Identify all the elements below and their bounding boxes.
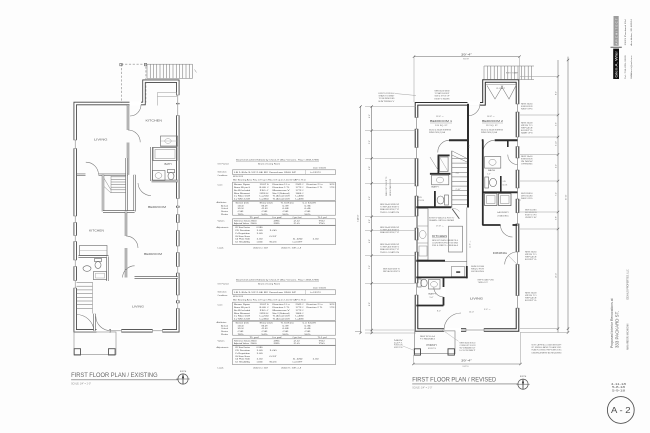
- svg-text:L=360: L=360: [260, 199, 270, 201]
- left plan: stair block walls: [102, 175, 104, 212]
- left plan: basement stairs: [77, 282, 93, 284]
- titleblock: sheet number circle A-2: [607, 397, 634, 424]
- left plan: bath2 walls: [78, 255, 108, 257]
- svg-text:NEW OPG: NEW OPG: [521, 108, 533, 110]
- svg-text:Conditions: Conditions: [218, 174, 229, 177]
- svg-text:Ratio: Ratio: [221, 333, 229, 336]
- svg-text:78%: 78%: [238, 334, 244, 336]
- right plan: main stairs: [451, 151, 453, 208]
- table1: values box: [233, 219, 336, 225]
- svg-text:KITCHEN: KITCHEN: [146, 118, 163, 122]
- svg-text:Max Moment: Max Moment: [234, 192, 251, 195]
- svg-text:5'-0": 5'-0": [430, 297, 434, 299]
- svg-text:2'-10": 2'-10": [456, 189, 461, 191]
- left plan: kitchen counter upper: [161, 136, 178, 146]
- svg-text:OPENING: OPENING: [521, 163, 533, 165]
- right plan: french door arcs at dining: [505, 252, 518, 265]
- svg-text:Attributes: Attributes: [217, 201, 228, 204]
- svg-text:Lu 1/3/17 F: Lu 1/3/17 F: [310, 292, 322, 294]
- svg-text:Actual: Actual: [221, 324, 229, 327]
- svg-text:LOCKSET: LOCKSET: [460, 350, 478, 352]
- svg-text:MOS 2015: MOS 2015: [233, 296, 244, 298]
- svg-text:SAME OPG: SAME OPG: [521, 131, 533, 134]
- right plan: angled door at stair: [452, 209, 459, 219]
- svg-text:13'-6" +-: 13'-6" +-: [436, 116, 444, 118]
- left plan: deck right window: [176, 95, 180, 103]
- right plan: dining table rect: [451, 267, 464, 277]
- left plan: door arc living-kitchen: [128, 130, 140, 142]
- svg-text:LIVING: LIVING: [94, 138, 108, 142]
- svg-text:11'-6" +-: 11'-6" +-: [469, 240, 471, 248]
- svg-text:REF'N OAK FLRS: REF'N OAK FLRS: [478, 279, 495, 282]
- svg-text:Proposed Interior Renovations: Proposed Interior Renovations at: [610, 298, 614, 348]
- left plan: exterior stair hatch top: [147, 63, 193, 65]
- svg-text:LEVEL 2ND FLOOR: LEVEL 2ND FLOOR: [390, 178, 392, 196]
- svg-text:1773 #: 1773 #: [296, 307, 305, 309]
- right plan: bath2 toilet: [485, 177, 489, 188]
- right plan: right dim lines: [557, 60, 559, 333]
- svg-text:Max Moment: Max Moment: [234, 312, 251, 315]
- svg-text:Adjusted Values: Adjusted Values: [234, 222, 249, 225]
- svg-text:Reaction 1 Lu: Reaction 1 Lu: [273, 303, 291, 306]
- svg-text:EXIST FTGS: EXIST FTGS: [394, 347, 403, 349]
- svg-text:105.94: 105.94: [238, 328, 245, 330]
- svg-text:LB 1-3/4x 9-1/2 2.0E RV Vers: LB 1-3/4x 9-1/2 2.0E RV VersaLam 3100 SP: [234, 291, 297, 294]
- svg-text:TL Actual Defl: TL Actual Defl: [273, 318, 291, 321]
- north compass right: [518, 379, 528, 389]
- svg-text:LIVING: LIVING: [132, 304, 145, 308]
- svg-text:333 PACKARD ST.: 333 PACKARD ST.: [615, 311, 620, 348]
- right plan: bottom dimension line: [413, 363, 520, 365]
- table2: data box: [233, 302, 336, 320]
- svg-text:EXIST'G WDWS: EXIST'G WDWS: [435, 98, 451, 100]
- svg-text:Lv Max Defl: Lv Max Defl: [234, 316, 251, 318]
- svg-text:5'-10": 5'-10": [556, 141, 558, 146]
- table1: selection box: [233, 170, 336, 175]
- left plan: deck inner lines: [158, 93, 177, 97]
- svg-text:Cr Repetition: Cr Repetition: [235, 232, 251, 235]
- svg-text:Reaction 2 Lu: Reaction 2 Lu: [307, 183, 324, 186]
- right plan: bath2 bottom wall: [482, 191, 517, 193]
- svg-text:UNDERLAYMENT AS REQUIRED: UNDERLAYMENT AS REQUIRED: [532, 351, 563, 354]
- right plan: top dimension line: [414, 56, 520, 58]
- svg-text:Max V (Reduced): Max V (Reduced): [273, 313, 290, 315]
- svg-text:6'-2": 6'-2": [369, 196, 371, 200]
- svg-text:Reaction 1 TL: Reaction 1 TL: [273, 306, 291, 309]
- svg-text:39'-4": 39'-4": [461, 53, 472, 56]
- svg-text:Beam Wt per ft: Beam Wt per ft: [234, 306, 250, 309]
- svg-text:78%: 78%: [238, 214, 244, 216]
- svg-text:REPLACE EXIST'G: REPLACE EXIST'G: [383, 270, 401, 273]
- svg-text:110 #: 110 #: [260, 190, 271, 192]
- svg-text:Date: 5/10/25: Date: 5/10/25: [313, 286, 327, 289]
- svg-text:CH Shear Stress: CH Shear Stress: [235, 355, 250, 358]
- svg-text:Bm Wt Included: Bm Wt Included: [234, 189, 251, 192]
- svg-text:KITCHEN: KITCHEN: [89, 229, 104, 233]
- svg-text:56%: 56%: [283, 214, 289, 216]
- svg-text:3'-6": 3'-6": [556, 122, 558, 126]
- svg-text:13.67 ft: 13.67 ft: [260, 183, 270, 186]
- left plan: bedroom1 door arc: [138, 183, 151, 196]
- svg-text:Lv psf: Lv psf: [273, 337, 283, 339]
- svg-text:OG: Framed: OG: Framed: [218, 282, 230, 285]
- left plan: right wall windows: [176, 104, 180, 116]
- svg-text:L=483: L=483: [296, 319, 305, 321]
- svg-text:TL-1 psf: TL-1 psf: [318, 337, 327, 339]
- svg-text:L=483: L=483: [296, 199, 305, 201]
- svg-text:BEDROOM: BEDROOM: [148, 205, 167, 209]
- svg-text:SHIM OUT FLOOR TO: SHIM OUT FLOOR TO: [386, 176, 388, 196]
- svg-text:Attributes: Attributes: [217, 321, 228, 324]
- titleblock: firm black box: [613, 49, 619, 79]
- svg-text:110 #: 110 #: [260, 310, 271, 312]
- svg-text:NORTH: NORTH: [180, 371, 187, 373]
- left plan: door arc deck-kitchen: [130, 105, 141, 116]
- right plan: bath2 vanity: [485, 157, 501, 169]
- svg-text:RB=12.06: RB=12.06: [270, 241, 278, 243]
- svg-text:37'-8": 37'-8": [566, 194, 568, 200]
- svg-text:Lv Defl: Lv Defl: [303, 202, 317, 204]
- svg-text:ANN ARBOR, MICHIGAN: ANN ARBOR, MICHIGAN: [627, 323, 630, 350]
- svg-text:Reaction 2 Lu: Reaction 2 Lu: [307, 303, 324, 306]
- svg-text:2345 #: 2345 #: [296, 304, 305, 306]
- svg-text:(STACKED): (STACKED): [498, 214, 509, 217]
- right plan: exterior walls: [417, 81, 518, 330]
- svg-text:C gen 1-mil: C gen 1-mil: [293, 337, 302, 339]
- svg-text:CLOS: CLOS: [502, 185, 508, 187]
- svg-text:6'-2": 6'-2": [469, 144, 471, 148]
- svg-text:CD Duration: CD Duration: [235, 229, 251, 232]
- svg-text:2345 #: 2345 #: [296, 184, 305, 186]
- right plan: stair winders: [452, 151, 467, 159]
- svg-text:Adjusted Values: Adjusted Values: [234, 342, 249, 345]
- svg-text:Loads: Loads: [218, 367, 225, 369]
- left plan: bath1 walls upper right: [150, 147, 152, 181]
- svg-text:STAIR TO BSMT: STAIR TO BSMT: [379, 95, 396, 98]
- svg-text:134.44: 134.44: [238, 205, 245, 207]
- svg-text:Lv Min Defl: Lv Min Defl: [234, 199, 251, 201]
- svg-text:VERIFY SZ: VERIFY SZ: [525, 217, 538, 219]
- svg-text:OG: Framed: OG: Framed: [218, 162, 230, 165]
- svg-text:Beam of Living Room: Beam of Living Room: [258, 163, 280, 165]
- table2: adjustments box: [233, 346, 336, 365]
- svg-text:Uniform Lv: 1617: Uniform Lv: 1617: [253, 366, 269, 369]
- svg-text:NEW KITCHEN CABINETS &: NEW KITCHEN CABINETS &: [432, 239, 459, 242]
- svg-text:Ct Stability: Ct Stability: [235, 240, 251, 243]
- svg-text:Ct Stability: Ct Stability: [235, 360, 251, 363]
- svg-text:1666 #: 1666 #: [296, 193, 305, 195]
- svg-text:3'-6": 3'-6": [456, 173, 460, 175]
- svg-text:Beam Span: Beam Span: [234, 304, 251, 306]
- left plan: door arc mid: [126, 236, 138, 248]
- svg-text:Beam Span: Beam Span: [234, 184, 251, 186]
- svg-text:SMALLER WDW, TYP: SMALLER WDW, TYP: [380, 208, 400, 211]
- left plan: bath1 toilet: [168, 170, 175, 173]
- right plan: closet rod + hangers: [486, 84, 516, 86]
- svg-text:Section (in3): Section (in3): [236, 201, 249, 204]
- svg-text:PLANK FLOORING. PREP SUBFLOOR: PLANK FLOORING. PREP SUBFLOOR &: [532, 349, 563, 352]
- svg-text:Critical: Critical: [221, 207, 229, 210]
- svg-text:4'-8": 4'-8": [369, 166, 371, 170]
- svg-text:Reaction 1 Lu: Reaction 1 Lu: [273, 183, 291, 186]
- svg-text:FIRST FLOOR PLAN / EXISTING: FIRST FLOOR PLAN / EXISTING: [71, 372, 158, 379]
- left plan: stair winders: [104, 178, 112, 191]
- svg-text:Selection: Selection: [218, 290, 228, 293]
- svg-text:L=240: L=240: [260, 196, 270, 198]
- left plan: bath2 sink: [83, 266, 91, 272]
- left plan: interior wall living/kitchen upper: [127, 105, 129, 130]
- svg-text:56%: 56%: [305, 334, 311, 336]
- svg-text:Status: Status: [221, 330, 228, 333]
- svg-text:Reaction 2 TL: Reaction 2 TL: [307, 306, 324, 309]
- right plan: bath2 door arc: [483, 140, 495, 152]
- svg-text:86.09: 86.09: [262, 205, 269, 207]
- left plan: porch: [74, 332, 116, 355]
- svg-text:24236 ft#: 24236 ft#: [260, 312, 270, 315]
- left plan: stair treads: [111, 176, 126, 178]
- svg-text:CLOSET: CLOSET: [496, 88, 506, 90]
- svg-text:Lv Min Defl: Lv Min Defl: [234, 319, 251, 321]
- svg-text:Ann Arbor, MI 48104: Ann Arbor, MI 48104: [630, 18, 633, 46]
- svg-text:1773 #: 1773 #: [330, 187, 337, 189]
- svg-text:3673 #: 3673 #: [330, 184, 337, 186]
- svg-text:1773 #: 1773 #: [296, 187, 305, 189]
- svg-text:Glen A. Wier: Glen A. Wier: [615, 50, 619, 78]
- titleblock: separator line: [611, 46, 622, 48]
- svg-text:Selection: Selection: [218, 170, 228, 173]
- svg-text:ENTIRELY: ENTIRELY: [379, 101, 396, 103]
- svg-text:TO REPLACE EXIST'G: TO REPLACE EXIST'G: [380, 229, 400, 232]
- right plan: left wall windows: [414, 118, 418, 130]
- svg-text:1666 #: 1666 #: [296, 313, 305, 315]
- right plan: bath1 toilet: [445, 195, 449, 205]
- svg-text:0.980: 0.980: [257, 227, 264, 229]
- svg-text:FIRST FLOOR PLAN / REVISED: FIRST FLOOR PLAN / REVISED: [412, 376, 496, 383]
- svg-text:CF Size Factor: CF Size Factor: [235, 346, 250, 349]
- svg-text:BEDROOM 2: BEDROOM 2: [482, 119, 503, 123]
- left plan: interior wall living/kitchen lower: [127, 143, 129, 175]
- svg-text:134.44: 134.44: [238, 325, 245, 327]
- svg-text:Bm Wt Included: Bm Wt Included: [234, 309, 251, 312]
- svg-text:REMAIN - PATCH & REPAIR: REMAIN - PATCH & REPAIR: [429, 219, 455, 222]
- right plan: door leader line: [441, 329, 459, 341]
- svg-text:TO MATCH EXIST: TO MATCH EXIST: [435, 92, 451, 95]
- svg-text:LAUNDRY: LAUNDRY: [497, 211, 510, 214]
- right plan: kitchen top wall: [416, 206, 451, 208]
- svg-text:Lu=13.58 FT: Lu=13.58 FT: [293, 241, 304, 243]
- svg-text:PORCH: PORCH: [427, 344, 437, 347]
- svg-text:CD Duration: CD Duration: [235, 349, 251, 352]
- right plan: shower door diag: [430, 157, 438, 170]
- right plan: bath3 walls: [443, 277, 445, 305]
- svg-text:W/ DEADBOLT: W/ DEADBOLT: [460, 347, 477, 350]
- svg-text:Beam of Living Room: Beam of Living Room: [258, 283, 280, 285]
- svg-text:8.06 #: 8.06 #: [260, 307, 270, 309]
- svg-text:54%: 54%: [262, 334, 268, 336]
- svg-text:Adjustments: Adjustments: [217, 226, 230, 229]
- left plan: bedroom2 bottom wall H2: [135, 276, 178, 278]
- svg-text:13.67 ft: 13.67 ft: [260, 303, 270, 306]
- svg-text:BATH: BATH: [432, 186, 440, 189]
- svg-text:CLOS: CLOS: [419, 200, 425, 202]
- svg-text:Cd Plate Side: Cd Plate Side: [235, 238, 251, 241]
- left plan: top wall door opening to deck: [130, 101, 142, 105]
- left plan: dashed old porch outline: [120, 64, 122, 103]
- left plan: bath2 shower: [94, 272, 107, 280]
- svg-text:5'-0": 5'-0": [487, 174, 491, 176]
- svg-text:Critical: Critical: [221, 327, 229, 330]
- svg-text:36x60 & 36x48 EGRESS: 36x60 & 36x48 EGRESS: [481, 130, 504, 132]
- table1: data box: [233, 182, 336, 200]
- table1: adjustments box: [233, 226, 336, 245]
- svg-text:BATH: BATH: [165, 163, 172, 166]
- svg-text:41.43: 41.43: [262, 328, 269, 330]
- svg-text:8'-0": 8'-0": [556, 91, 558, 95]
- svg-text:TL Actual Defl: TL Actual Defl: [273, 198, 291, 201]
- svg-text:5'-2": 5'-2": [369, 265, 371, 269]
- svg-text:EXIST STAIR: EXIST STAIR: [506, 72, 519, 75]
- svg-text:Lv Max Defl: Lv Max Defl: [234, 196, 251, 198]
- svg-text:54%: 54%: [262, 214, 268, 216]
- svg-text:3673 #: 3673 #: [330, 304, 337, 306]
- svg-text:WINDOWS (2) EA: WINDOWS (2) EA: [429, 131, 446, 134]
- svg-text:ARCHITECT: ARCHITECT: [614, 17, 618, 45]
- svg-text:TO REPLACE EXIST'G: TO REPLACE EXIST'G: [380, 246, 400, 249]
- svg-text:Maximum V: Maximum V: [273, 310, 291, 312]
- svg-text:16'-8" +-: 16'-8" +-: [487, 116, 495, 118]
- svg-text:2'-8": 2'-8": [369, 219, 371, 223]
- right plan: right wall windows: [515, 104, 519, 112]
- left plan: door arc H2: [123, 266, 135, 278]
- svg-text:Reaction 1 TL: Reaction 1 TL: [273, 186, 291, 189]
- svg-text:Date: 5/10/25: Date: 5/10/25: [313, 166, 327, 169]
- left plan: middle wall below stairs: [125, 212, 127, 237]
- right plan: bath1/shower walls: [438, 154, 450, 156]
- svg-text:L=240: L=240: [260, 316, 270, 318]
- svg-text:Reaction 2 TL: Reaction 2 TL: [307, 186, 324, 189]
- svg-text:1923 Packard Rd: 1923 Packard Rd: [624, 18, 627, 45]
- svg-text:105.94: 105.94: [238, 208, 245, 210]
- svg-text:MOS 2015: MOS 2015: [233, 176, 244, 178]
- right plan: wall H1 bedroom bottoms: [449, 139, 468, 141]
- svg-text:WINDOWS (2) EA: WINDOWS (2) EA: [481, 131, 498, 134]
- svg-text:DEPTH: DEPTH: [463, 366, 470, 368]
- right plan: left dim lines: [360, 106, 362, 333]
- svg-text:17'-8" +-: 17'-8" +-: [436, 225, 444, 227]
- svg-text:1773 #: 1773 #: [296, 310, 305, 312]
- svg-text:Uniform Lv: 1617: Uniform Lv: 1617: [253, 246, 269, 249]
- right plan: bath2 left wall / laundry wall: [482, 140, 484, 225]
- right plan: laundry bottom wall: [482, 224, 500, 226]
- svg-text:Reference Values: Reference Values: [234, 339, 250, 342]
- table2: selection box: [233, 290, 336, 295]
- svg-text:RB=12.06: RB=12.06: [270, 361, 278, 363]
- svg-text:Uniform TL: 1587 = L-8: Uniform TL: 1587 = L-8: [281, 366, 302, 369]
- svg-text:LIN: LIN: [419, 197, 423, 199]
- table1: attributes box: [233, 201, 336, 215]
- right plan: bedroom1 door arc at H1: [438, 140, 449, 152]
- right plan: kitchen counter: [418, 209, 429, 261]
- svg-text:Max V (Reduced): Max V (Reduced): [273, 193, 290, 195]
- left plan: kitchen2 counter: [80, 246, 108, 256]
- svg-text:Lu 1/3/17 F: Lu 1/3/17 F: [310, 172, 322, 174]
- svg-text:THIS LOCATION: THIS LOCATION: [380, 251, 400, 254]
- svg-text:Shear (in2): Shear (in2): [260, 321, 273, 324]
- left plan: hall wall H1: [77, 174, 86, 176]
- right plan: bath1 left wall stub: [434, 191, 436, 207]
- svg-text:EXIST'G: EXIST'G: [428, 348, 437, 350]
- margin mark 2: [355, 331, 361, 333]
- svg-text:BeamChek (2015 Edition) by Che: BeamChek (2015 Edition) by Check-IT (Mac…: [236, 159, 320, 162]
- left plan: porch post right: [109, 349, 116, 355]
- left plan: bath1 vanity: [153, 171, 166, 181]
- svg-text:TL Defl (in): TL Defl (in): [281, 322, 294, 324]
- table2: values box: [233, 339, 336, 345]
- svg-text:36x60 & 36x48 EGRESS: 36x60 & 36x48 EGRESS: [429, 130, 452, 132]
- svg-text:SMALLER WDW, TYP: SMALLER WDW, TYP: [380, 248, 400, 251]
- right plan: linen closet wall: [500, 176, 502, 192]
- svg-text:56%: 56%: [305, 214, 311, 216]
- left plan: tub: [153, 148, 177, 161]
- right plan: top wall door opening bedroom1: [468, 102, 481, 106]
- svg-text:Loads: Loads: [218, 247, 225, 249]
- svg-text:Conditions: Conditions: [218, 294, 229, 297]
- svg-text:112 SQ. FT.: 112 SQ. FT.: [486, 125, 498, 127]
- right plan: closet door arc bedroom2: [508, 155, 518, 165]
- svg-text:BEDROOM: BEDROOM: [144, 252, 163, 256]
- svg-text:L=480: L=480: [296, 196, 305, 198]
- svg-text:Values: Values: [218, 220, 226, 222]
- svg-text:KITCHEN: KITCHEN: [432, 234, 447, 238]
- right plan: kitchen bottom wall: [416, 260, 445, 262]
- right plan: bottom wall openings: [444, 328, 461, 332]
- svg-text:Lv Defl: Lv Defl: [303, 322, 317, 324]
- svg-text:L=360: L=360: [260, 319, 270, 321]
- svg-text:56%: 56%: [283, 334, 289, 336]
- svg-text:L=480: L=480: [296, 316, 305, 318]
- svg-text:14'-0": 14'-0": [469, 312, 474, 314]
- svg-text:8'-0": 8'-0": [437, 311, 441, 313]
- left plan: bath2 toilet: [95, 259, 102, 262]
- right plan: porch post right: [448, 349, 454, 355]
- svg-text:0.980: 0.980: [257, 347, 264, 349]
- svg-text:DW & REF'G - SEE A-4: DW & REF'G - SEE A-4: [432, 244, 458, 247]
- svg-text:Min Bearing Area R1= 0.9 sq: Min Bearing Area R1= 0.9 sq in R2= 0.9 s…: [233, 179, 307, 182]
- svg-text:C gen 1-mil: C gen 1-mil: [293, 217, 302, 219]
- right plan: central wall: [467, 104, 469, 208]
- svg-text:Cr Repetition: Cr Repetition: [235, 352, 251, 355]
- left plan: door arc hall: [86, 162, 99, 175]
- svg-text:Adjustments: Adjustments: [217, 346, 230, 349]
- svg-text:Reference Values: Reference Values: [234, 219, 250, 222]
- svg-text:CF Size Factor: CF Size Factor: [235, 226, 250, 229]
- right plan: exterior stair hatch: [484, 65, 534, 67]
- svg-text:42'-0": 42'-0": [358, 214, 360, 220]
- svg-text:TL Actual Defl: TL Actual Defl: [273, 315, 291, 318]
- svg-text:LB 1-3/4x 9-1/2 2.0E RV Vers: LB 1-3/4x 9-1/2 2.0E RV VersaLam 3100 SP: [234, 171, 297, 174]
- svg-text:TL Actual Defl: TL Actual Defl: [273, 195, 291, 198]
- svg-text:4'-6": 4'-6": [369, 114, 371, 118]
- right plan: kitchen island: [449, 226, 463, 252]
- svg-text:TL psf: TL psf: [250, 217, 260, 219]
- svg-text:BEDROOM 1: BEDROOM 1: [430, 119, 452, 123]
- svg-text:BATH: BATH: [488, 169, 496, 172]
- svg-text:DEXALO PROPERTIES, LLC: DEXALO PROPERTIES, LLC: [627, 269, 630, 300]
- titleblock: architect grey box: [614, 16, 619, 46]
- svg-text:7'-2": 7'-2": [556, 192, 558, 196]
- svg-text:Lu=13.58 FT: Lu=13.58 FT: [293, 361, 304, 363]
- svg-text:Beam Wt per ft: Beam Wt per ft: [234, 186, 250, 189]
